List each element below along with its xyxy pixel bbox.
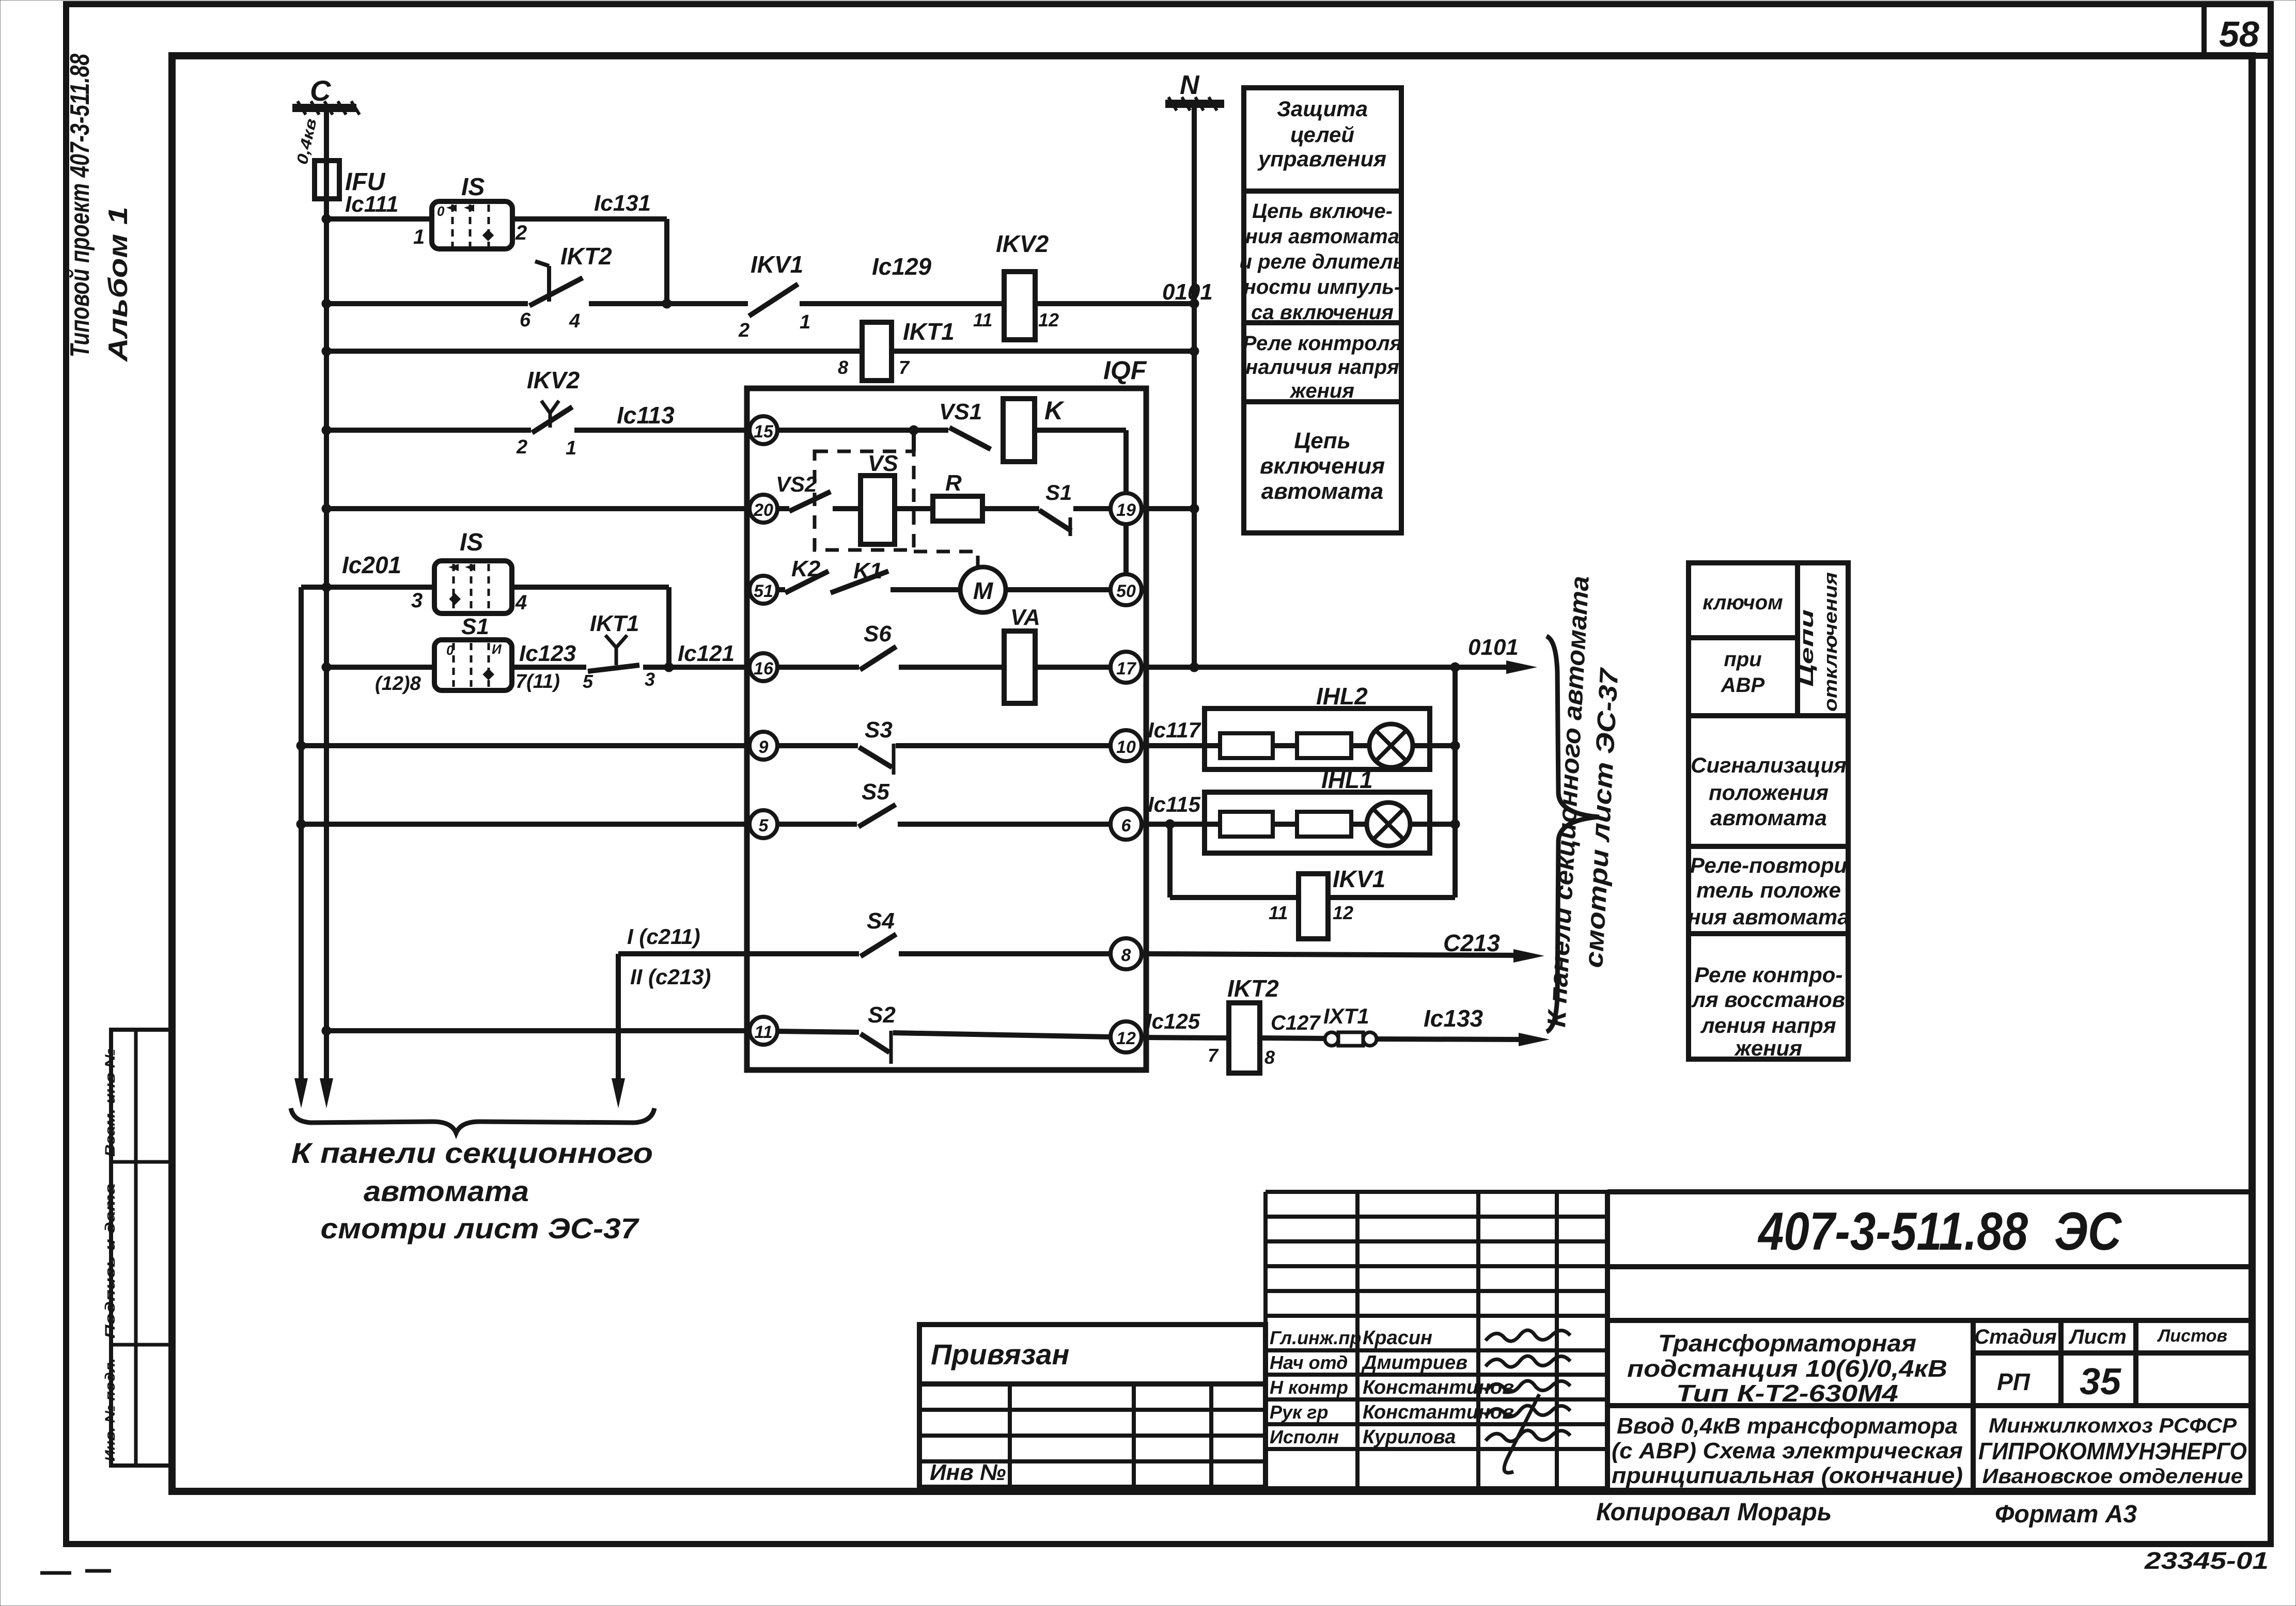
svg-text:целей: целей: [1290, 122, 1354, 147]
svg-text:IXT1: IXT1: [1323, 1004, 1369, 1028]
svg-text:Формат А3: Формат А3: [1995, 1501, 2137, 1528]
svg-text:C213: C213: [1443, 930, 1500, 956]
svg-text:Копировал Морарь: Копировал Морарь: [1596, 1499, 1832, 1526]
svg-text:0: 0: [437, 203, 445, 219]
svg-text:3: 3: [411, 589, 423, 612]
svg-text:Альбом 1: Альбом 1: [103, 207, 133, 363]
svg-text:Реле контроля: Реле контроля: [1243, 332, 1402, 355]
svg-text:Цепь: Цепь: [1294, 428, 1351, 453]
svg-text:6: 6: [520, 309, 531, 331]
svg-text:IS: IS: [461, 174, 485, 201]
svg-text:S1: S1: [1045, 480, 1072, 505]
svg-text:Ic129: Ic129: [872, 253, 932, 280]
svg-text:Ic201: Ic201: [342, 552, 401, 578]
svg-text:К панели секционного: К панели секционного: [291, 1137, 653, 1169]
svg-text:автомата: автомата: [1710, 806, 1827, 830]
svg-text:ля восстанов: ля восстанов: [1691, 987, 1845, 1012]
svg-text:Ic121: Ic121: [678, 641, 735, 666]
svg-text:са включения: са включения: [1251, 301, 1394, 324]
svg-text:2: 2: [738, 320, 749, 341]
svg-text:58: 58: [2219, 14, 2259, 54]
svg-text:15: 15: [754, 422, 774, 442]
svg-text:S2: S2: [868, 1002, 896, 1028]
svg-text:И: И: [492, 641, 502, 657]
svg-text:Лист: Лист: [2068, 1326, 2127, 1348]
svg-text:IS: IS: [460, 529, 483, 556]
svg-text:S1: S1: [461, 614, 489, 639]
svg-text:Н контр: Н контр: [1270, 1377, 1348, 1398]
svg-text:8: 8: [1121, 946, 1131, 965]
svg-text:12: 12: [1038, 309, 1059, 330]
svg-text:Ввод 0,4кВ трансформатора: Ввод 0,4кВ трансформатора: [1617, 1413, 1958, 1439]
svg-text:12: 12: [1333, 902, 1353, 923]
svg-text:Реле-повтори: Реле-повтори: [1690, 853, 1847, 877]
svg-text:M: M: [973, 577, 994, 604]
svg-text:Ic115: Ic115: [1148, 792, 1201, 816]
svg-text:ния автомата: ния автомата: [1688, 905, 1849, 929]
svg-text:11: 11: [754, 1022, 772, 1042]
svg-text:ния автомата: ния автомата: [1245, 225, 1399, 248]
svg-text:Защита: Защита: [1277, 97, 1368, 121]
svg-text:R: R: [945, 470, 962, 496]
svg-text:7: 7: [1208, 1045, 1219, 1066]
svg-text:Ic111: Ic111: [345, 192, 399, 217]
svg-text:Нач отд: Нач отд: [1270, 1352, 1348, 1373]
svg-text:17: 17: [1116, 659, 1137, 679]
svg-text:II (c213): II (c213): [630, 965, 711, 989]
svg-text:Взам. инв №: Взам. инв №: [102, 1048, 118, 1157]
svg-text:VS2: VS2: [776, 472, 817, 496]
svg-text:VA: VA: [1010, 605, 1040, 630]
svg-text:тель положе: тель положе: [1696, 878, 1841, 902]
svg-text:35: 35: [2080, 1361, 2121, 1403]
svg-text:управления: управления: [1257, 147, 1386, 171]
svg-text:Ic123: Ic123: [519, 641, 576, 666]
svg-text:Ic117: Ic117: [1148, 718, 1201, 742]
svg-text:6: 6: [1121, 816, 1132, 836]
svg-text:1: 1: [800, 311, 810, 333]
svg-text:ключом: ключом: [1703, 591, 1783, 614]
svg-text:4: 4: [515, 591, 527, 614]
svg-text:ЭС: ЭС: [2054, 1202, 2122, 1262]
svg-text:K2: K2: [791, 556, 821, 581]
svg-text:IKV2: IKV2: [527, 367, 580, 393]
svg-text:2: 2: [515, 222, 527, 244]
svg-text:принципиальная (окончание): принципиальная (окончание): [1612, 1463, 1963, 1488]
svg-text:Инв №: Инв №: [930, 1460, 1006, 1485]
svg-text:1: 1: [566, 437, 576, 459]
svg-text:51: 51: [754, 581, 773, 601]
svg-text:Цепи: Цепи: [1796, 609, 1817, 687]
svg-text:IKV1: IKV1: [751, 251, 803, 278]
svg-text:C127: C127: [1271, 1012, 1321, 1034]
svg-text:11: 11: [973, 309, 992, 330]
svg-text:S3: S3: [865, 717, 893, 743]
svg-text:9: 9: [759, 737, 769, 757]
svg-text:11: 11: [1269, 902, 1288, 923]
svg-text:АВР: АВР: [1721, 674, 1765, 697]
svg-text:Цепь включе-: Цепь включе-: [1252, 200, 1393, 223]
svg-text:IKT2: IKT2: [1227, 975, 1279, 1002]
svg-text:Подпись и дата: Подпись и дата: [102, 1184, 118, 1339]
svg-text:Ic131: Ic131: [594, 191, 651, 216]
svg-text:ления напря: ления напря: [1700, 1013, 1836, 1037]
svg-text:РП: РП: [1997, 1368, 2031, 1395]
svg-text:Гл.инж.пр: Гл.инж.пр: [1270, 1327, 1361, 1348]
svg-text:Минжилкомхоз РСФСР: Минжилкомхоз РСФСР: [1989, 1414, 2237, 1437]
svg-text:20: 20: [753, 500, 773, 520]
svg-text:IKT2: IKT2: [560, 243, 612, 270]
svg-text:8: 8: [838, 357, 848, 378]
svg-text:ГИПРОКОММУНЭНЕРГО: ГИПРОКОММУНЭНЕРГО: [1978, 1438, 2247, 1465]
svg-text:I (c211): I (c211): [627, 924, 700, 949]
svg-text:0101: 0101: [1468, 635, 1519, 660]
svg-text:Ic133: Ic133: [1424, 1005, 1483, 1032]
svg-text:N: N: [1180, 70, 1200, 100]
svg-text:S6: S6: [864, 621, 892, 647]
svg-text:5: 5: [583, 671, 593, 692]
svg-text:K: K: [1044, 396, 1065, 425]
svg-text:VS1: VS1: [939, 399, 982, 424]
svg-text:Исполн: Исполн: [1270, 1426, 1339, 1447]
svg-text:(12)8: (12)8: [375, 673, 421, 695]
svg-text:16: 16: [754, 659, 774, 679]
svg-text:4: 4: [569, 310, 580, 332]
svg-text:положения: положения: [1709, 780, 1829, 805]
svg-text:жения: жения: [1289, 380, 1354, 402]
svg-text:407-3-511.88: 407-3-511.88: [1757, 1202, 2028, 1262]
svg-text:50: 50: [1116, 581, 1136, 601]
svg-text:Привязан: Привязан: [931, 1338, 1069, 1371]
svg-text:Трансформаторная: Трансформаторная: [1658, 1330, 1916, 1357]
svg-text:VS: VS: [868, 451, 898, 476]
svg-text:IKT1: IKT1: [590, 611, 639, 636]
svg-text:IHL2: IHL2: [1316, 683, 1368, 710]
svg-text:K1: K1: [853, 558, 882, 584]
svg-text:Сигнализация: Сигнализация: [1691, 753, 1847, 777]
svg-text:Тип К-Т2-630М4: Тип К-Т2-630М4: [1676, 1380, 1898, 1407]
svg-text:Типовой проект 407-3-511.88: Типовой проект 407-3-511.88: [65, 54, 95, 357]
svg-text:(с АВР) Схема электрическая: (с АВР) Схема электрическая: [1612, 1438, 1963, 1463]
svg-text:Рук гр: Рук гр: [1270, 1402, 1328, 1423]
svg-text:ности импуль-: ности импуль-: [1244, 276, 1401, 298]
svg-text:IQF: IQF: [1103, 356, 1147, 385]
svg-text:S4: S4: [867, 908, 895, 934]
svg-text:Реле контро-: Реле контро-: [1695, 963, 1843, 987]
svg-text:отключения: отключения: [1820, 572, 1841, 712]
svg-text:Ic125: Ic125: [1146, 1009, 1200, 1033]
svg-text:IKV2: IKV2: [996, 230, 1049, 257]
svg-text:Инв. № подл.: Инв. № подл.: [102, 1358, 118, 1461]
svg-text:0101: 0101: [1162, 279, 1213, 305]
svg-text:IKV1: IKV1: [1333, 865, 1385, 892]
svg-text:подстанция 10(6)/0,4кВ: подстанция 10(6)/0,4кВ: [1627, 1355, 1947, 1382]
svg-text:Дмитриев: Дмитриев: [1361, 1352, 1467, 1374]
svg-text:и реле длитель: и реле длитель: [1240, 250, 1405, 273]
svg-text:2: 2: [516, 436, 527, 458]
svg-text:жения: жения: [1734, 1036, 1802, 1060]
svg-text:IHL1: IHL1: [1321, 766, 1373, 793]
svg-text:автомата: автомата: [364, 1175, 529, 1207]
svg-text:7(11): 7(11): [516, 671, 560, 692]
svg-text:12: 12: [1116, 1029, 1136, 1048]
svg-text:Ивановское отделение: Ивановское отделение: [1982, 1465, 2243, 1488]
svg-text:IKT1: IKT1: [903, 318, 955, 345]
svg-text:Листов: Листов: [2157, 1326, 2227, 1346]
svg-text:Ic113: Ic113: [617, 402, 675, 429]
svg-text:при: при: [1724, 648, 1761, 671]
svg-text:Стадия: Стадия: [1974, 1326, 2056, 1348]
svg-text:Красин: Красин: [1363, 1327, 1432, 1349]
svg-text:5: 5: [759, 816, 769, 836]
svg-text:23345-01: 23345-01: [2144, 1547, 2269, 1574]
svg-text:наличия напря: наличия напря: [1245, 356, 1399, 379]
svg-text:19: 19: [1116, 500, 1136, 520]
svg-text:0: 0: [446, 642, 454, 658]
svg-text:S5: S5: [862, 779, 889, 805]
svg-text:3: 3: [645, 669, 655, 690]
svg-text:включения: включения: [1260, 453, 1385, 479]
svg-text:Курилова: Курилова: [1363, 1426, 1456, 1448]
svg-text:7: 7: [899, 357, 910, 378]
svg-text:смотри лист ЭС-37: смотри лист ЭС-37: [321, 1212, 640, 1245]
svg-text:8: 8: [1264, 1047, 1275, 1068]
svg-text:автомата: автомата: [1261, 479, 1384, 504]
svg-text:1: 1: [413, 226, 425, 248]
svg-text:10: 10: [1116, 737, 1136, 757]
